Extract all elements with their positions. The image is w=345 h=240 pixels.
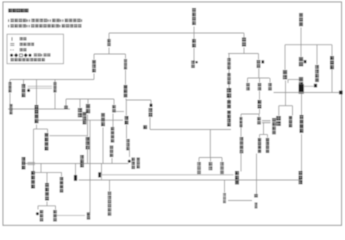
node small dark at line2a end	[98, 172, 101, 177]
node 定暹	[220, 162, 224, 174]
node 村上	[299, 77, 303, 86]
node 子 (small at M1)	[64, 106, 68, 110]
node square on right border	[339, 91, 342, 95]
wire down to 為長	[125, 100, 127, 116]
wire 朝頼 down	[228, 84, 230, 88]
wire down child 3	[221, 158, 223, 162]
wire down to 文範	[113, 99, 115, 105]
wire down to 兼輔	[125, 54, 127, 59]
node 兼輔	[124, 59, 127, 69]
generation number marker 胤子	[262, 60, 265, 63]
node 惟規	[235, 171, 239, 184]
node 信経女	[137, 158, 140, 169]
long wire M1	[8, 108, 70, 110]
node 惟規朝臣	[31, 171, 35, 188]
node 彰子	[299, 171, 303, 184]
legend row 1: parent-child line sample	[11, 37, 13, 41]
long sibling wire L1	[10, 79, 94, 81]
node 康延子	[131, 158, 134, 170]
wire down to 一条	[301, 94, 303, 115]
wire down to 詮子	[269, 78, 271, 83]
marriage double line left	[28, 85, 53, 87]
marker dot bottom left	[36, 212, 39, 215]
wire down to 兼輔朝臣	[36, 80, 38, 106]
wire down to 朱雀	[300, 45, 302, 57]
wire down to 女子	[258, 114, 260, 117]
wire down to 雅子	[61, 173, 63, 177]
node 藤原宣孝	[272, 118, 276, 134]
legend label 養子	[20, 48, 27, 51]
corner wire line2a to line2b	[101, 175, 103, 180]
node small lower	[255, 203, 258, 209]
node small upper	[254, 194, 257, 197]
node 成忠女	[110, 146, 113, 158]
wire down to 良房	[193, 33, 195, 39]
title 紫式部系図	[8, 9, 28, 13]
node 娍子	[289, 116, 292, 127]
wire down to 紫式部女	[46, 173, 48, 183]
wire 道兼 down	[259, 109, 261, 114]
sibling line of 冬嗣 children	[109, 32, 244, 34]
node 済時	[276, 116, 281, 126]
node 藤原香子	[45, 183, 49, 200]
small wire right of dark block	[304, 85, 314, 87]
wire down to 定国	[9, 80, 11, 83]
wire 兼輔朝臣 down	[36, 125, 38, 130]
sibling line 高藤 children	[228, 53, 259, 55]
wire 胤子 down	[258, 69, 260, 79]
wire 為時 down to line1	[87, 147, 89, 164]
wire 為頼 down	[149, 118, 151, 130]
node 利基	[92, 60, 96, 72]
wire 為長 down	[126, 125, 128, 139]
long wire M2	[39, 119, 124, 121]
long wire line2a	[102, 174, 234, 176]
marriage line 村上	[288, 79, 299, 81]
wire 利基 down	[93, 74, 95, 80]
node 為時	[86, 137, 90, 149]
wire 定国 down to M1	[9, 93, 11, 109]
wire down to 為頼	[150, 100, 152, 104]
wire down to 利基	[93, 54, 95, 60]
marriage double line at line1 left	[28, 161, 36, 163]
node 良門	[107, 39, 110, 46]
node 雅正	[124, 85, 128, 97]
legend row 4: symbol samples	[10, 54, 13, 57]
generation number marker	[195, 61, 197, 63]
wire down to 高藤	[243, 33, 245, 39]
subtitle line 2	[8, 24, 81, 27]
node 信義	[227, 100, 231, 108]
node 実頼	[330, 56, 334, 69]
wire 大弐三位 down	[256, 154, 258, 196]
node 女子 (bottom)	[87, 212, 90, 219]
node 女 (small)	[143, 125, 147, 129]
sibling line 宣孝 children	[260, 134, 268, 136]
wire down child 2	[210, 158, 212, 162]
wire down to cluster	[129, 151, 131, 158]
node 高階成章	[266, 138, 269, 153]
sibling line 道兼 children	[241, 113, 259, 115]
node 為長女	[80, 155, 84, 167]
wire down below line2	[109, 180, 111, 191]
long wire line2b	[79, 179, 301, 181]
node 道兼	[258, 100, 262, 108]
long wire line1	[24, 163, 129, 165]
node 伊祐2	[126, 139, 129, 150]
marriage wire 文範=為長	[116, 111, 124, 113]
wire down child 1	[198, 158, 200, 162]
wire down to 定方	[228, 54, 230, 59]
marker dot 定方	[27, 89, 30, 92]
wire down to children	[209, 130, 211, 158]
wire down to 胤子	[258, 54, 260, 60]
wire down to second child	[267, 135, 269, 138]
wire 高藤 down	[243, 48, 245, 54]
node 斎宮女御	[315, 65, 319, 82]
node 兼通	[246, 83, 249, 90]
sibling line center children	[199, 157, 222, 159]
wire down to sub-bracket	[46, 202, 48, 206]
wire 満子 down to M1	[54, 93, 56, 109]
wire line1 down to line2a	[101, 164, 103, 175]
sibling line 重明 children	[279, 105, 293, 107]
wire down to 庶明	[79, 99, 81, 108]
marriage double line 女子=宣孝	[262, 120, 271, 122]
sibling line third generation right	[248, 77, 270, 79]
node 惟通	[209, 162, 213, 170]
node 大弐三位	[258, 138, 261, 153]
legend box	[7, 34, 64, 64]
wire in 定方 chain 2	[228, 85, 230, 89]
wire down to 満子	[54, 80, 56, 83]
wire down to 雅正朝臣	[47, 129, 49, 133]
node 能理女	[83, 112, 87, 124]
wire down to 定方卿	[23, 80, 25, 85]
node 中正子	[227, 111, 231, 127]
wire down to 紫式部	[240, 114, 242, 117]
node 重明親王	[283, 70, 287, 79]
node 元名	[111, 127, 114, 143]
wire 良門 down	[108, 48, 110, 55]
node 満子	[53, 82, 56, 92]
node 兼家	[258, 83, 261, 90]
long marriage wire 為頼女=為時	[150, 129, 231, 131]
legend row 2: marriage double line sample	[10, 43, 14, 45]
wire in 定方 chain	[228, 70, 230, 74]
long wire down to bottom name	[89, 120, 91, 212]
connector M1 up to H_a	[65, 99, 67, 109]
wire down to 大弐三位	[259, 135, 261, 138]
node 雅正朝臣	[45, 133, 49, 150]
node 定国	[8, 82, 11, 92]
wire down to small dark node	[75, 164, 77, 176]
wire down left grandchild	[37, 206, 39, 210]
wire 雅量 down	[87, 115, 89, 137]
wire in 定方 chain 3	[228, 98, 230, 101]
sibling line 醍醐 children	[285, 44, 332, 46]
wire down to 実頼	[331, 45, 333, 56]
wire 醍醐 down	[300, 28, 302, 45]
wire 保光女 down to line1	[102, 128, 104, 164]
long marriage wire to right border	[274, 92, 342, 94]
node 醍醐天皇	[299, 13, 303, 26]
wire from marriage down	[263, 123, 265, 135]
sibling line 雅正 children	[126, 99, 151, 101]
stem 雅正 to sibling line	[125, 99, 127, 101]
node 冷泉 (dark block)	[299, 84, 304, 94]
wire 兼家 down	[259, 91, 261, 100]
node 高藤	[242, 38, 246, 47]
long wire down to bracket	[33, 129, 35, 173]
wire down to 重明	[284, 45, 286, 70]
wire 文範 down	[112, 114, 114, 128]
sibling sub-bracket	[38, 205, 56, 207]
wire 一条 down	[301, 134, 303, 171]
node 女王子	[40, 210, 43, 222]
wire down to line2	[240, 151, 242, 172]
node 賢子	[223, 193, 226, 203]
node 定方	[227, 58, 230, 69]
node 藤原冬嗣 (top ancestor)	[192, 8, 196, 25]
legend label 親子	[20, 37, 27, 40]
wire down to line1	[111, 158, 113, 164]
wire down right grandchild	[55, 206, 57, 210]
node 保光女	[101, 113, 105, 126]
generation number marker 朱雀	[304, 60, 307, 63]
node 即位子	[53, 210, 56, 222]
node 朱雀	[299, 57, 303, 66]
node 兼輔朝臣	[34, 105, 38, 123]
marriage wire bottom right	[228, 200, 252, 202]
wire down left child	[278, 106, 280, 116]
node 詮子	[268, 83, 271, 90]
marker dot at line1 end	[128, 160, 131, 163]
node 良房	[192, 39, 196, 47]
node 基経	[191, 61, 194, 68]
node 女 small dark	[74, 175, 77, 181]
node 高階成章妻	[108, 192, 112, 216]
wire 実頼 down to marriage line	[331, 70, 333, 93]
subtitle line 1	[8, 19, 82, 22]
marker above 為頼	[150, 104, 153, 107]
wire down to 良門	[108, 33, 110, 39]
wire down to 雅量	[87, 99, 89, 104]
tick on marriage line	[287, 80, 289, 84]
node 定方	[22, 84, 26, 97]
node 胤子	[257, 60, 261, 68]
legend label 第一・二子	[34, 53, 50, 56]
node 為頼	[148, 108, 152, 117]
node 定暹闍梨	[60, 177, 63, 193]
sibling wire y129	[34, 128, 48, 130]
node 為信	[240, 137, 244, 153]
node 女子	[257, 117, 260, 124]
node 伊祐	[197, 162, 201, 174]
node 一条天皇	[300, 115, 304, 133]
sibling bracket y172.6	[32, 172, 63, 174]
wire 重明 down	[285, 81, 287, 106]
wire 兼輔 down	[125, 70, 127, 85]
legend note 数字は天皇の代数	[11, 58, 45, 61]
wire down to 兼家	[259, 78, 261, 83]
node 為頼卿	[22, 157, 26, 169]
node 庶明	[78, 108, 82, 117]
node 朝頼	[227, 73, 230, 84]
node 為長	[125, 116, 129, 124]
wire down to 斎宮女御	[316, 45, 318, 65]
node 雅量	[86, 104, 90, 113]
wire 紫式部 down	[240, 127, 242, 137]
wire down to 兼通	[247, 78, 249, 83]
node 理実	[227, 88, 232, 98]
wire 良房 down	[193, 48, 195, 63]
adoption wire bottom	[57, 214, 86, 216]
node 文範	[112, 105, 115, 112]
legend row 3: dashed adoption line sample	[10, 49, 14, 51]
legend label 婚姻関係	[20, 43, 34, 46]
marriage wire M3	[50, 135, 88, 137]
node 清経	[9, 104, 12, 114]
wire H_a	[66, 98, 114, 100]
wire line1 down to bracket	[40, 164, 42, 173]
node 紫式部	[239, 117, 242, 127]
tiny node at small wire end	[314, 84, 317, 88]
wire from 冬嗣 down	[193, 27, 195, 34]
sibling line 良門 children	[94, 53, 126, 55]
wire 定方 down	[228, 69, 230, 73]
wire down right child	[292, 106, 294, 116]
wire down to 賢子	[224, 180, 226, 193]
